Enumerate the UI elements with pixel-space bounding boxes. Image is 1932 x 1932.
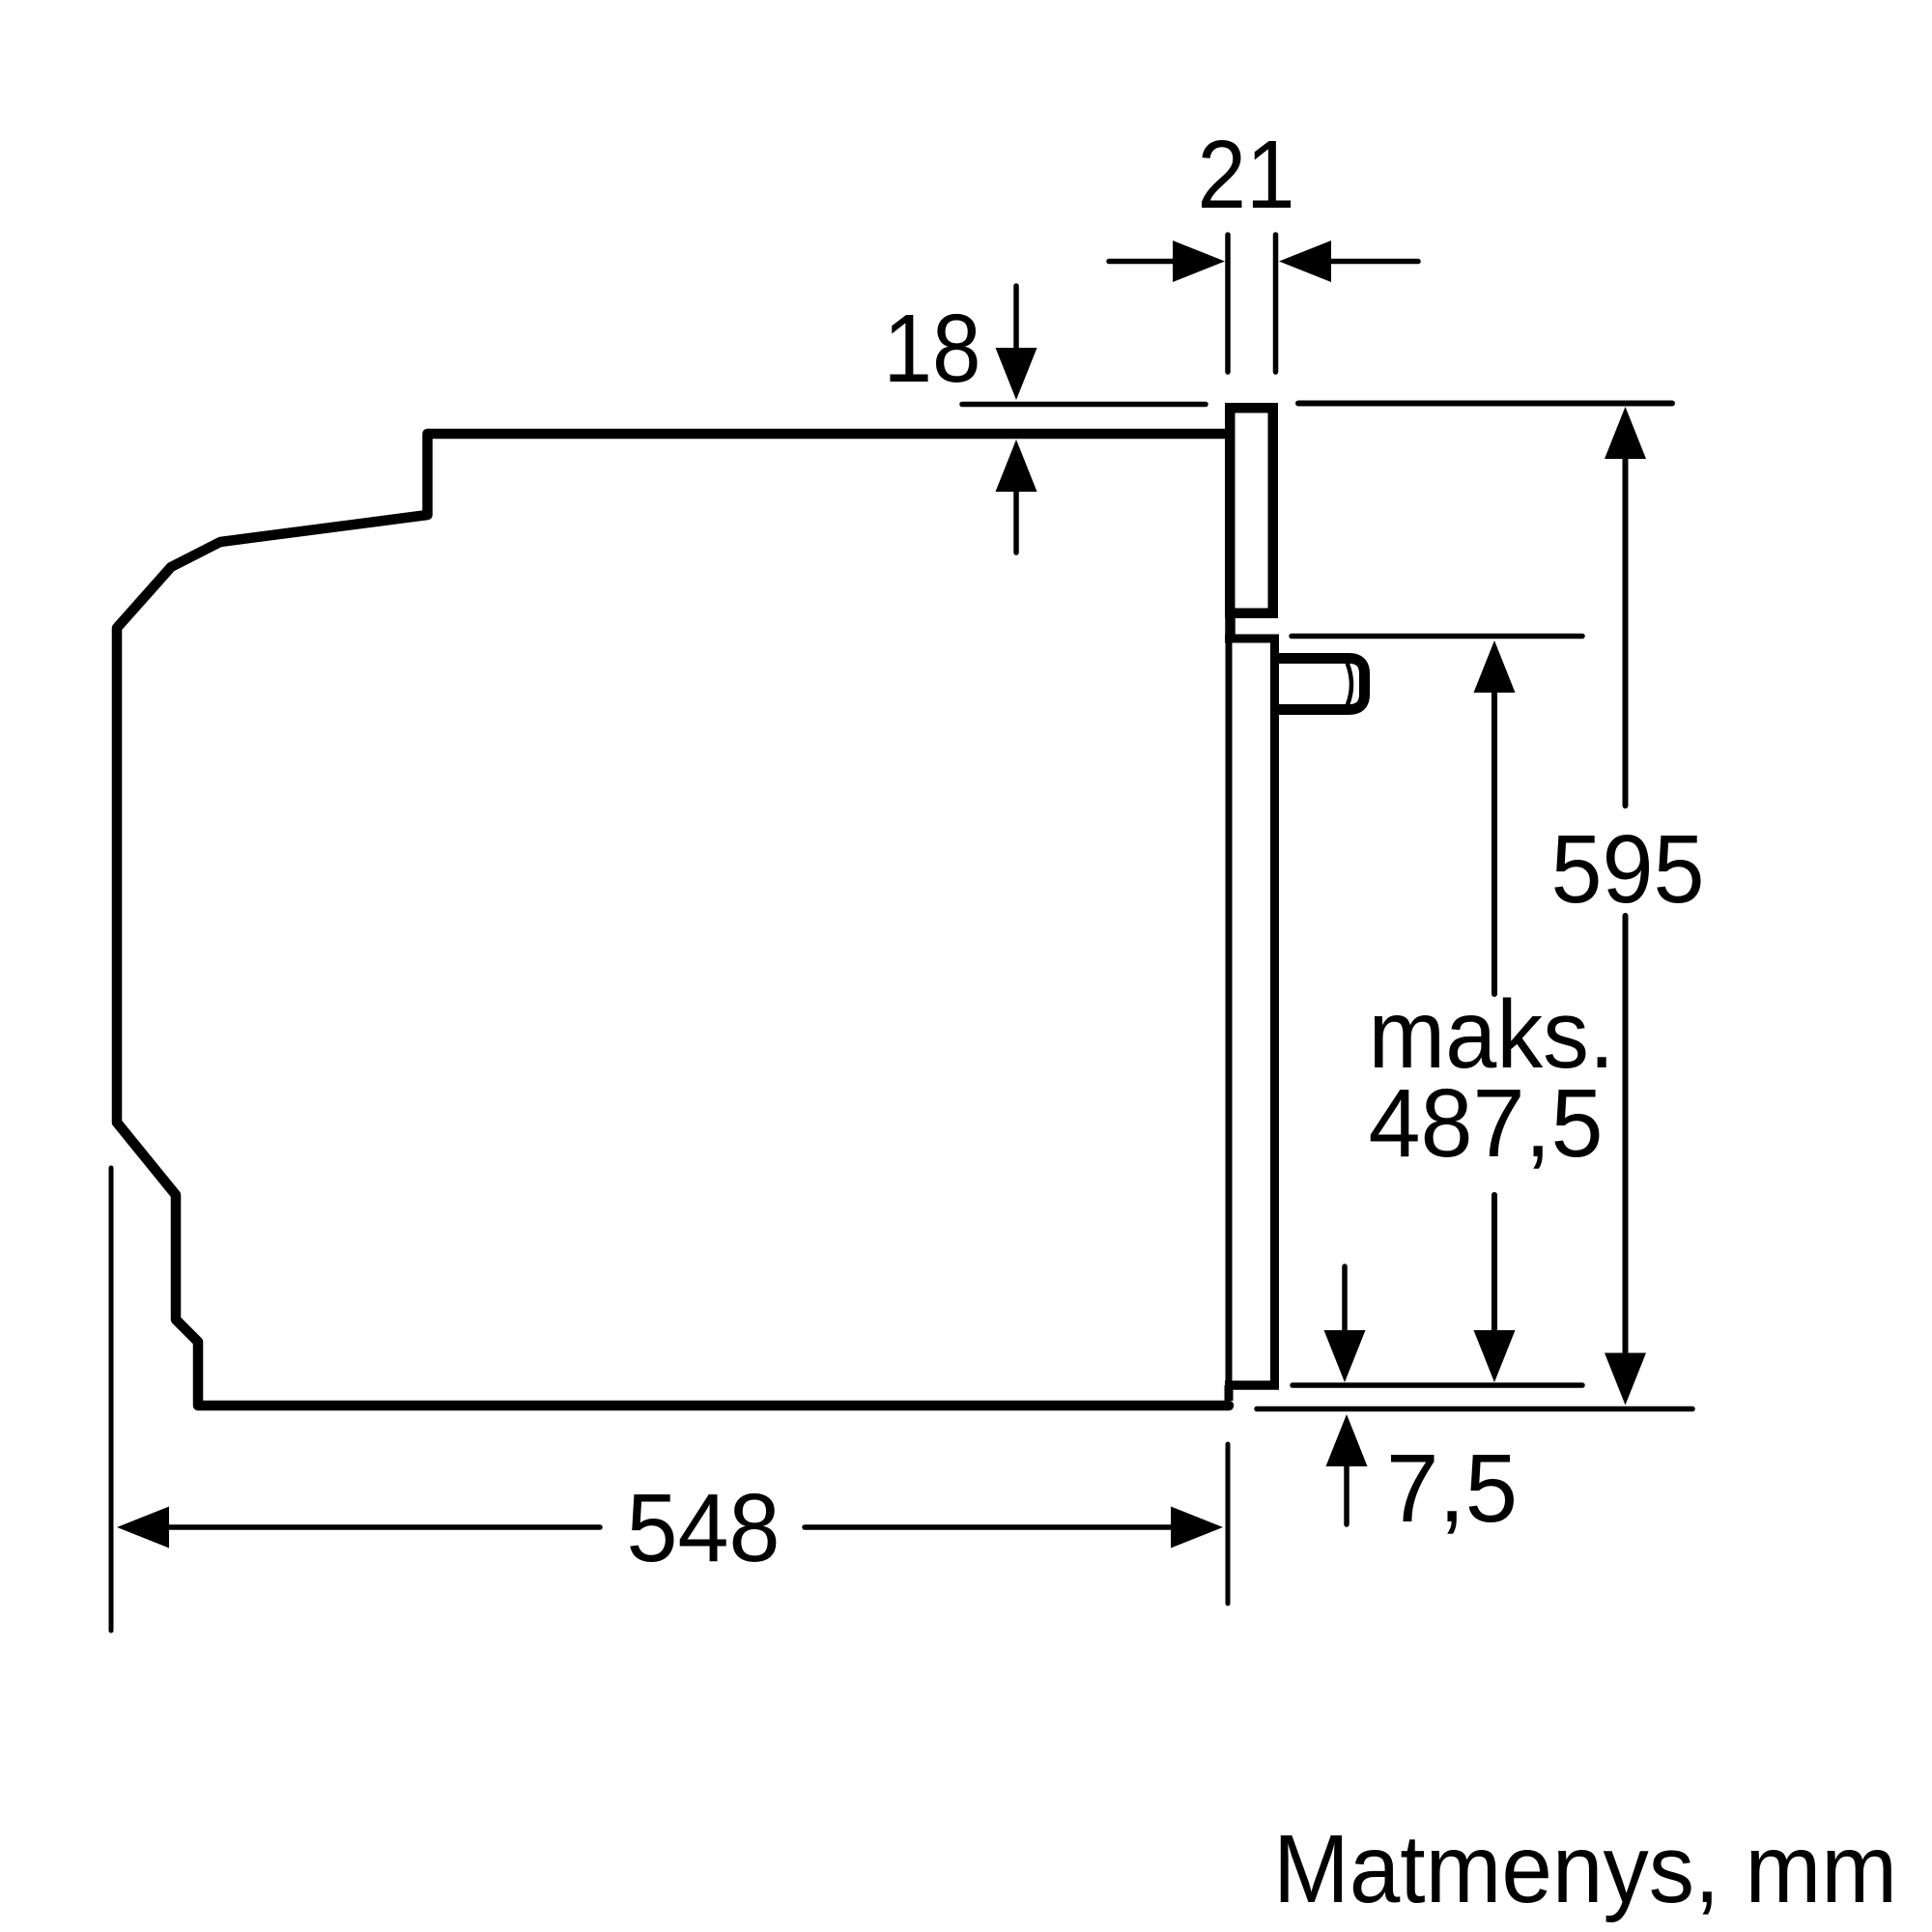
extension line 21 left <box>1225 235 1231 372</box>
door right edge <box>1270 642 1279 1385</box>
dimension 548 right arrow <box>805 1524 1171 1530</box>
neck connector between control panel and door <box>1225 612 1236 639</box>
dimension 595 line with arrows <box>1605 407 1646 459</box>
door bottom bar <box>1225 1380 1279 1390</box>
extension line 548 right <box>1226 1444 1231 1604</box>
svg-text:7,5: 7,5 <box>1386 1435 1518 1543</box>
svg-text:Matmenys, mm: Matmenys, mm <box>1273 1815 1897 1923</box>
door left edge <box>1226 642 1233 1385</box>
control panel rectangle <box>1230 408 1273 613</box>
svg-text:18: 18 <box>884 295 981 403</box>
dimension 7,5 up arrow <box>1326 1414 1368 1466</box>
svg-text:548: 548 <box>627 1474 781 1582</box>
extension line top right (595 top reference) <box>1298 401 1672 407</box>
dimension 21 right arrow <box>1279 241 1331 282</box>
svg-text:595: 595 <box>1551 815 1705 923</box>
extension line niche bottom <box>1257 1406 1692 1412</box>
dimension 548 left arrow <box>117 1507 169 1548</box>
oven body outline <box>117 434 1229 1406</box>
dimension 21 left arrow <box>1109 259 1175 265</box>
dimension 7,5 down arrow <box>1342 1266 1348 1330</box>
svg-text:21: 21 <box>1198 121 1295 229</box>
dimension maks 487,5 line with arrows <box>1474 640 1516 693</box>
dimension 18 up arrow <box>996 440 1037 492</box>
dimension 18 down arrow <box>1013 286 1019 352</box>
extension line maks bottom reference <box>1293 1382 1582 1388</box>
extension line maks top reference <box>1292 634 1582 639</box>
handle end inner detail line <box>1348 665 1351 705</box>
extension line 21 right <box>1273 235 1279 372</box>
door top bar <box>1225 635 1279 643</box>
door handle <box>1274 659 1365 710</box>
worktop extension line left of door <box>962 402 1206 408</box>
svg-text:487,5: 487,5 <box>1369 1069 1604 1178</box>
extension line 548 left <box>109 1168 114 1631</box>
door lower connector to oven bottom <box>1225 1385 1234 1401</box>
